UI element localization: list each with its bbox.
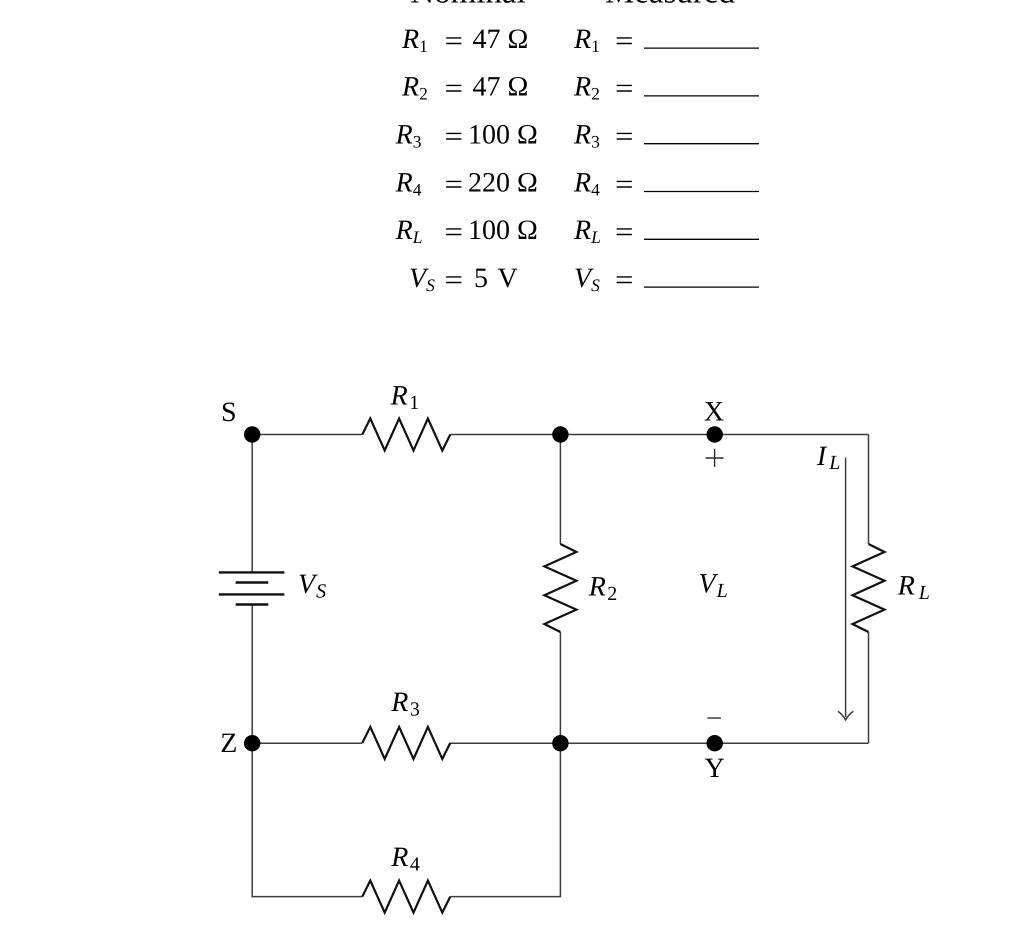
- wire top rail R1 to right corner: [450, 434, 868, 436]
- node Y dot: [707, 735, 723, 751]
- blank line row 4: [644, 191, 759, 193]
- resistor RL: [853, 544, 885, 632]
- blank line row 6: [644, 286, 759, 288]
- resistor R4: [362, 881, 450, 913]
- wire bottom rail R3 to right corner: [450, 742, 868, 744]
- battery VS plate long top: [219, 571, 285, 573]
- wire R2 to bottom junction: [559, 632, 561, 743]
- blank line row 1: [644, 47, 759, 49]
- blank line row 3: [644, 143, 759, 145]
- wire right rail lower: [868, 632, 870, 743]
- resistor R2: [544, 544, 576, 632]
- svg-text:X: X: [704, 397, 724, 428]
- wire right rail upper: [868, 435, 870, 545]
- wire top junction to R2: [559, 435, 561, 545]
- wire battery bottom to Z: [251, 605, 253, 744]
- wire bottom rail Z to R3: [252, 742, 362, 744]
- plus sign at X: [706, 457, 724, 459]
- wire S to battery top: [251, 435, 253, 573]
- blank line row 5: [644, 238, 759, 240]
- current arrow IL head: [838, 711, 854, 720]
- node S dot: [244, 426, 260, 442]
- node Z dot: [244, 735, 260, 751]
- header Nominal (cut off at top): [410, 0, 525, 11]
- node junction bottom (R2-R3) dot: [552, 735, 568, 751]
- node X dot: [707, 426, 723, 442]
- svg-text:Measured: Measured: [605, 0, 736, 11]
- wire Z down to R4 row: [252, 743, 362, 896]
- svg-text:S: S: [221, 397, 237, 428]
- wire top rail S to R1: [252, 434, 362, 436]
- blank line row 2: [644, 95, 759, 97]
- battery VS plate short upper: [236, 581, 269, 583]
- battery VS plate short lower: [236, 603, 269, 605]
- header Measured (cut off at top): [605, 0, 736, 11]
- svg-text:Y: Y: [704, 753, 724, 784]
- svg-text:Z: Z: [220, 728, 237, 759]
- resistor R1: [362, 419, 450, 451]
- node junction top (R1-R2) dot: [552, 426, 568, 442]
- battery VS plate long bottom: [219, 593, 285, 595]
- wire R4 to bottom junction: [450, 743, 560, 896]
- svg-text:Nominal: Nominal: [410, 0, 525, 11]
- minus sign at Y: [708, 717, 721, 719]
- current arrow IL shaft: [845, 458, 847, 717]
- resistor R3: [362, 727, 450, 759]
